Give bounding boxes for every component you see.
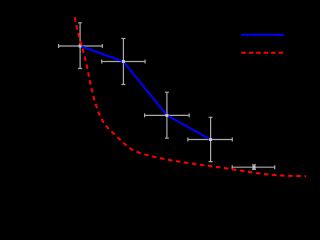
- point1 x error bar: [59, 44, 103, 48]
- legend sample line series2 (red dashed): [241, 52, 283, 54]
- point1 y error bar: [78, 23, 82, 69]
- fit curve (red dashed): [75, 17, 306, 176]
- marker point2: [122, 60, 125, 63]
- marker point5: [253, 166, 256, 169]
- point4 y error bar: [209, 117, 213, 161]
- point5 y error bar: [252, 165, 256, 170]
- point5 x error bar: [232, 165, 275, 169]
- point2 y error bar: [121, 39, 125, 85]
- marker point3: [165, 114, 168, 117]
- point4 x error bar: [188, 138, 232, 142]
- data series line (blue): [80, 46, 211, 140]
- point3 y error bar: [165, 92, 169, 138]
- marker point4: [209, 138, 212, 141]
- legend sample line series1 (blue): [241, 34, 284, 36]
- marker point1: [79, 45, 82, 48]
- data point markers: [79, 45, 256, 169]
- point2 x error bar: [102, 60, 145, 64]
- error bars group: [59, 23, 275, 170]
- point3 x error bar: [145, 113, 190, 117]
